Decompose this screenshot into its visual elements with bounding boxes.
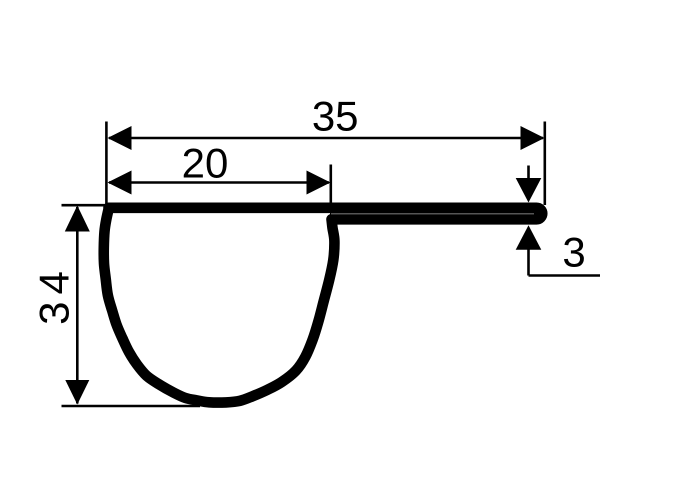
dimension 3: leader line bbox=[529, 274, 601, 277]
dimension line 35 bbox=[109, 137, 543, 140]
arrowhead 35 right bbox=[521, 126, 545, 150]
dimension 3: lower stub line bbox=[527, 249, 530, 276]
extension line left (for 35 and 20) bbox=[105, 122, 108, 211]
profile outline: 3mm top plate with rounded right end and left drop bead/bulb bbox=[104, 208, 543, 403]
dimension line 20 bbox=[109, 181, 329, 184]
extension line right (for 35) bbox=[543, 122, 546, 206]
arrowhead 34 bottom bbox=[65, 380, 89, 405]
svg-text:3: 3 bbox=[562, 229, 585, 276]
arrowhead 35 left bbox=[108, 126, 132, 150]
extension line top-left (for 34) bbox=[62, 204, 113, 207]
arrowhead 34 top bbox=[65, 206, 90, 232]
svg-text:20: 20 bbox=[182, 140, 229, 187]
arrowhead 3 up bbox=[516, 225, 542, 250]
dimension 3: upper stub line bbox=[527, 166, 530, 181]
arrowhead 20 right bbox=[307, 171, 331, 195]
arrowhead 20 left bbox=[108, 171, 132, 195]
dimension line 34 bbox=[76, 207, 79, 404]
svg-text:35: 35 bbox=[312, 93, 359, 140]
extension line right (for 20) bbox=[329, 165, 332, 204]
plate seam line bbox=[331, 213, 534, 215]
svg-text:34: 34 bbox=[31, 264, 78, 325]
extension line bottom-left (for 34) bbox=[62, 405, 201, 408]
arrowhead 3 down bbox=[516, 178, 542, 203]
plate fill patch (keeps plate solid under seam) bbox=[330, 207, 540, 219]
